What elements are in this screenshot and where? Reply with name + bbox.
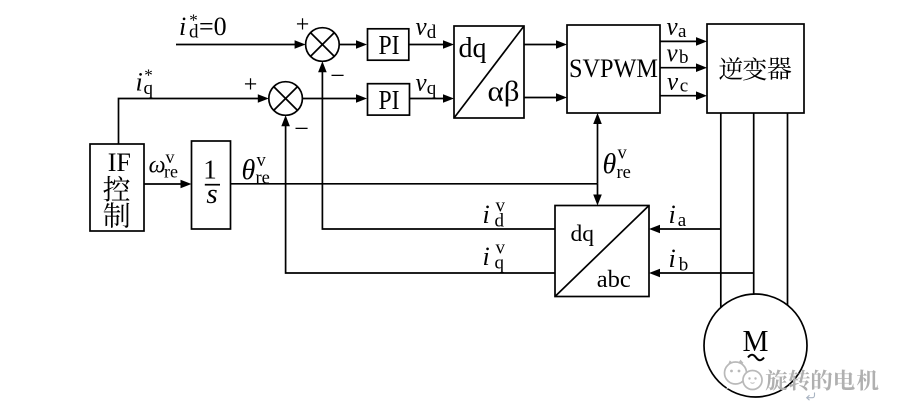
svg-text:=0: =0 — [199, 12, 227, 41]
svg-text:a: a — [678, 21, 687, 42]
svg-text:PI: PI — [379, 30, 400, 60]
label v_c — [667, 68, 688, 96]
svg-text:dq: dq — [571, 221, 595, 247]
wire PI1 to dq-ab — [409, 40, 454, 49]
label zhi text — [104, 202, 130, 228]
svg-text:v: v — [667, 40, 679, 67]
svg-text:re: re — [164, 162, 178, 182]
label i_a — [669, 200, 687, 231]
block SVPWM — [567, 25, 660, 113]
wire va SVPWM to inverter — [660, 37, 707, 46]
svg-text:IF: IF — [108, 148, 131, 177]
svg-text:v: v — [667, 68, 679, 95]
wire vb SVPWM to inverter — [660, 63, 707, 72]
wire phase a inverter to motor — [720, 113, 722, 308]
svg-text:q: q — [495, 253, 505, 274]
label v_q — [416, 70, 437, 100]
wire ib from phase b to dq-abc — [649, 269, 754, 278]
wire vc SVPWM to inverter — [660, 91, 707, 100]
label alpha-beta — [488, 77, 520, 108]
svg-text:d: d — [427, 22, 437, 43]
summing junction S2 — [269, 82, 303, 116]
svg-text:b: b — [679, 47, 689, 68]
label v_a — [667, 14, 688, 43]
wire theta up into SVPWM — [593, 113, 602, 184]
wire phase c inverter to motor — [787, 113, 789, 306]
label PI1 text — [379, 30, 400, 60]
label AC tilde — [748, 355, 764, 361]
diagonal of dq-alphabeta block — [454, 26, 524, 118]
label omega_re^v — [149, 147, 178, 182]
svg-text:v: v — [618, 144, 628, 164]
wire iq feedback into S2 — [281, 115, 555, 273]
label i*_q — [136, 66, 154, 100]
svg-text:ω: ω — [149, 153, 166, 179]
summing junction S1 — [306, 28, 340, 62]
svg-text:SVPWM: SVPWM — [569, 54, 658, 83]
svg-text:θ: θ — [603, 149, 617, 180]
svg-text:q: q — [427, 78, 437, 99]
svg-text:i: i — [179, 12, 186, 41]
label IF text — [108, 148, 131, 177]
svg-text:−: − — [330, 61, 345, 90]
wire ia from phase a to dq-abc — [649, 225, 721, 234]
label dq (top block) — [459, 33, 487, 64]
wire PI2 to dq-ab — [410, 94, 455, 103]
svg-text:q: q — [144, 78, 154, 99]
wire id* reference input — [176, 40, 306, 49]
block dq-abc transform — [555, 206, 649, 297]
svg-text:−: − — [294, 114, 309, 143]
svg-text:abc: abc — [597, 266, 631, 293]
svg-text:re: re — [256, 169, 270, 189]
svg-text:+: + — [244, 72, 258, 98]
svg-text:v: v — [667, 14, 679, 41]
plus sign at summing junction S1 — [296, 12, 310, 38]
block integrator 1/s — [192, 141, 231, 229]
wire dq-ab to SVPWM lower — [524, 93, 567, 102]
svg-text:d: d — [189, 22, 199, 43]
svg-text:d: d — [495, 211, 505, 232]
plus sign at summing junction S2 — [244, 72, 258, 98]
watermark return mark — [807, 393, 815, 401]
watermark text — [766, 369, 879, 390]
label 1/s fraction — [203, 155, 220, 211]
label theta_re^v second — [603, 144, 631, 184]
svg-text:PI: PI — [379, 85, 400, 115]
wire theta feedforward horizontal — [231, 183, 598, 185]
svg-text:i: i — [136, 68, 143, 97]
svg-text:i: i — [483, 242, 490, 271]
label abc — [597, 266, 631, 293]
svg-text:b: b — [679, 255, 689, 276]
wire dq-ab to SVPWM upper — [524, 40, 567, 49]
motor M circle — [704, 294, 807, 397]
svg-text:v: v — [416, 70, 428, 97]
label i_b — [669, 244, 689, 276]
svg-text:i: i — [669, 244, 676, 273]
svg-text:dq: dq — [459, 33, 487, 64]
label i*_d=0 — [179, 11, 227, 43]
wire theta down into dq-abc — [593, 184, 602, 206]
svg-text:i: i — [483, 200, 490, 229]
minus sign at summing junction S2 — [294, 114, 309, 143]
wire phase b inverter to motor — [753, 113, 755, 295]
label v_b — [667, 40, 689, 68]
wire S2 to PI2 — [302, 94, 367, 103]
block PI2 — [368, 84, 410, 115]
label PI2 text — [379, 85, 400, 115]
label i_q^v — [483, 238, 506, 274]
label i_d^v — [483, 196, 506, 232]
wire id feedback into S1 — [318, 61, 555, 229]
block inverter — [707, 24, 804, 113]
diagonal of dq-abc block — [555, 206, 649, 297]
svg-text:i: i — [669, 200, 676, 229]
svg-text:a: a — [678, 210, 687, 231]
label dq (bottom block) — [571, 221, 595, 247]
svg-text:θ: θ — [242, 155, 256, 186]
label kong text — [103, 176, 129, 202]
svg-text:s: s — [206, 178, 217, 210]
watermark logo faces — [725, 361, 763, 390]
block PI1 — [368, 29, 409, 60]
svg-text:M: M — [743, 323, 769, 358]
svg-text:c: c — [680, 75, 688, 96]
wire IF to integrator — [144, 180, 192, 189]
svg-text:re: re — [617, 163, 631, 183]
label M — [743, 323, 769, 358]
svg-text:v: v — [416, 14, 428, 41]
block IF control — [90, 144, 144, 231]
minus sign at summing junction S1 — [330, 61, 345, 90]
wire S1 to PI1 — [339, 40, 367, 49]
block dq-alphabeta transform — [454, 26, 524, 118]
label theta_re^v first — [242, 151, 270, 189]
svg-text:+: + — [296, 12, 310, 38]
label v_d — [416, 14, 437, 44]
wire iq* reference input — [119, 94, 269, 144]
label inverter text — [719, 57, 791, 80]
label SVPWM text — [569, 54, 658, 83]
svg-text:αβ: αβ — [488, 77, 520, 108]
